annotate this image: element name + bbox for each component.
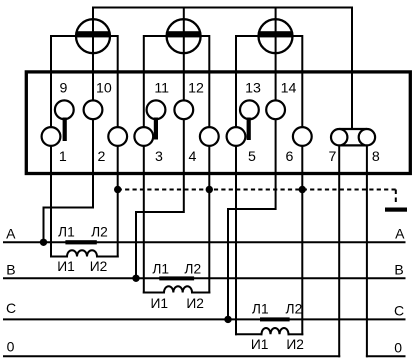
wire terminal 5 to CT3 secondary I1 xyxy=(235,137,237,335)
wire dashed earth bus xyxy=(118,189,396,191)
wire voltage coil element 2 vertical xyxy=(136,8,184,279)
terminal 10 xyxy=(84,100,103,119)
link terminal 7 to 8 bottom xyxy=(339,144,367,146)
meter element 2 current winding bar xyxy=(167,31,199,37)
wire element 1 left staple to terminal 1 xyxy=(51,36,77,137)
svg-text:В: В xyxy=(6,262,15,278)
wire element 2 left staple to terminal 3 xyxy=(144,36,168,137)
node A tap xyxy=(40,239,47,246)
svg-text:И2: И2 xyxy=(90,259,108,274)
svg-text:3: 3 xyxy=(155,149,163,165)
svg-text:12: 12 xyxy=(188,80,204,96)
link terminal 13 to 5 xyxy=(247,118,251,141)
meter element 3 current winding bar xyxy=(259,31,291,37)
node earth I2 phase C xyxy=(299,186,306,193)
wire phase line C xyxy=(4,318,405,320)
wire terminal 8 to neutral right xyxy=(366,145,368,356)
svg-text:С: С xyxy=(394,303,404,319)
wire CT2 secondary bottom left xyxy=(144,292,164,294)
svg-text:Л2: Л2 xyxy=(286,302,303,317)
svg-text:А: А xyxy=(395,225,405,241)
svg-text:14: 14 xyxy=(281,80,297,96)
terminal 2 xyxy=(108,127,127,146)
node C tap xyxy=(224,316,231,323)
CT1 primary bar xyxy=(65,240,96,244)
wire dashed earth drop xyxy=(395,190,397,206)
svg-text:1: 1 xyxy=(59,149,67,165)
svg-text:7: 7 xyxy=(329,149,337,165)
wire terminal 4 to CT2 secondary I2 xyxy=(208,137,210,293)
coil CT3 secondary winding xyxy=(262,328,289,334)
svg-text:И1: И1 xyxy=(57,259,75,274)
svg-text:6: 6 xyxy=(286,149,294,165)
wire neutral line 0 left xyxy=(4,355,339,357)
wire terminal 1 to CT1 secondary I1 xyxy=(50,137,52,257)
terminal 14 xyxy=(266,100,285,119)
wire phase line A xyxy=(4,241,405,243)
node B tap xyxy=(132,275,139,282)
terminal 1 xyxy=(42,127,61,146)
wire voltage coil element 1 vertical xyxy=(44,8,94,243)
meter terminal box xyxy=(26,72,410,174)
svg-text:10: 10 xyxy=(96,80,112,96)
svg-text:Л1: Л1 xyxy=(252,302,269,317)
svg-text:Л2: Л2 xyxy=(184,261,201,276)
wire CT1 secondary bottom left xyxy=(51,256,67,258)
terminal 8 xyxy=(359,129,375,145)
terminal 5 xyxy=(227,127,246,146)
terminal 6 xyxy=(293,127,312,146)
wire CT3 secondary bottom left xyxy=(236,333,262,335)
meter element 2 voltage winding circle xyxy=(167,19,201,53)
terminal 13 xyxy=(240,100,259,119)
node earth I2 phase B xyxy=(206,186,213,193)
wire top bus drop to link 7-8 xyxy=(351,8,353,130)
CT2 primary bar xyxy=(159,276,194,280)
svg-text:Л1: Л1 xyxy=(58,225,75,240)
terminal 3 xyxy=(134,127,153,146)
terminal 7 xyxy=(331,129,347,145)
wire terminal 7 to neutral left xyxy=(338,145,340,356)
link terminal 7 to 8 top xyxy=(339,128,367,130)
wire phase line B xyxy=(4,277,405,279)
svg-text:9: 9 xyxy=(59,80,67,96)
svg-text:4: 4 xyxy=(189,149,197,165)
meter element 1 current winding bar xyxy=(77,31,109,37)
terminal 4 xyxy=(200,127,219,146)
svg-text:С: С xyxy=(6,300,16,316)
wire terminal 6 to CT3 secondary I2 xyxy=(301,137,303,335)
svg-text:И1: И1 xyxy=(251,337,269,352)
svg-text:8: 8 xyxy=(372,149,380,165)
svg-text:5: 5 xyxy=(248,149,256,165)
svg-text:11: 11 xyxy=(154,80,169,96)
wire element 1 right staple to terminal 2 xyxy=(109,36,118,137)
wire neutral line 0 right xyxy=(367,355,405,357)
coil CT2 secondary winding xyxy=(164,286,192,292)
wire CT2 secondary bottom right xyxy=(192,292,209,294)
wire element 3 left staple to terminal 5 xyxy=(236,36,260,137)
meter element 1 voltage winding circle xyxy=(76,19,110,53)
svg-text:Л2: Л2 xyxy=(91,225,108,240)
svg-text:2: 2 xyxy=(98,149,106,165)
svg-text:В: В xyxy=(394,262,403,278)
wire CT1 secondary bottom right xyxy=(97,256,118,258)
link terminal 9 to 1 xyxy=(63,118,67,142)
meter element 3 voltage winding circle xyxy=(259,19,293,53)
terminal 11 xyxy=(147,100,166,119)
node earth I2 phase A xyxy=(114,186,121,193)
wire terminal 3 to CT2 secondary I1 xyxy=(143,137,145,293)
CT3 primary bar xyxy=(260,317,290,321)
svg-text:И1: И1 xyxy=(151,296,169,311)
wire top neutral bus xyxy=(93,7,352,9)
wire terminal 2 to CT1 secondary I2 xyxy=(117,137,119,257)
svg-text:Л1: Л1 xyxy=(152,261,169,276)
coil CT1 secondary winding xyxy=(67,250,97,256)
terminal 12 xyxy=(174,100,193,119)
link terminal 11 to 3 xyxy=(154,118,158,140)
svg-text:13: 13 xyxy=(245,80,261,96)
wire CT3 secondary bottom right xyxy=(289,333,303,335)
svg-text:А: А xyxy=(6,225,16,241)
svg-text:0: 0 xyxy=(7,338,15,354)
ground xyxy=(385,208,407,212)
wire voltage coil element 3 vertical xyxy=(228,8,276,320)
svg-text:И2: И2 xyxy=(186,296,204,311)
svg-text:И2: И2 xyxy=(286,337,304,352)
terminal 9 xyxy=(55,100,74,119)
wire element 3 right staple to terminal 6 xyxy=(292,36,303,137)
svg-text:0: 0 xyxy=(394,340,402,356)
wire element 2 right staple to terminal 4 xyxy=(200,36,210,137)
